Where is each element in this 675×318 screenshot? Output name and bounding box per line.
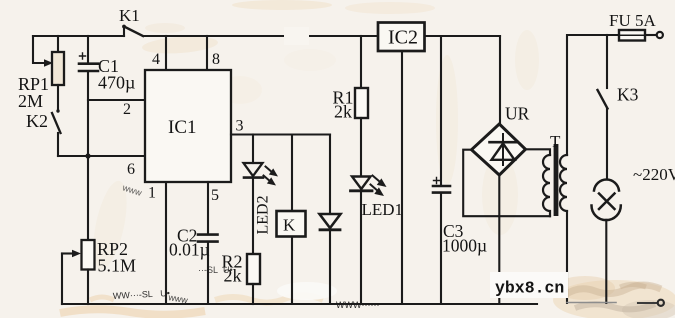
wire top rail segment to IC2: [309, 35, 378, 37]
wire pin1 drop: [165, 182, 167, 304]
wire top rail left segment: [33, 35, 124, 37]
switch K1: [122, 25, 143, 36]
svg-text:470µ: 470µ: [98, 73, 135, 93]
wire bridge AC left loop: [463, 150, 550, 217]
wire top rail segment IC2 to bridge: [425, 35, 500, 37]
potentiometer RP1: [52, 36, 64, 109]
svg-text:2M: 2M: [18, 91, 43, 111]
resistor R1: [355, 36, 368, 176]
svg-text:ybx8.cn: ybx8.cn: [495, 279, 564, 298]
svg-text:K2: K2: [26, 111, 48, 131]
svg-text:5.1M: 5.1M: [98, 256, 137, 276]
transformer T primary winding: [560, 155, 567, 211]
potentiometer RP2: [62, 240, 95, 304]
bridge rectifier UR diamond: [472, 124, 526, 175]
svg-text:1: 1: [148, 185, 156, 202]
wire bridge DC bottom drop: [498, 175, 500, 303]
wire pin3 horizontal: [231, 133, 330, 135]
svg-text:IC1: IC1: [168, 117, 197, 138]
svg-text:5: 5: [211, 187, 219, 204]
regulator IC2: [378, 23, 425, 52]
wire C1 bottom down through junction to RP2: [87, 71, 89, 240]
svg-text:2: 2: [123, 101, 131, 118]
capacitor C1: [79, 36, 98, 71]
wire pin5 drop: [207, 182, 209, 234]
svg-text:8: 8: [212, 51, 220, 68]
wire pin4 drop: [165, 36, 167, 70]
terminal circle bottom right: [658, 300, 664, 306]
wire pin6 horizontal: [58, 155, 145, 157]
svg-text:3: 3: [236, 118, 244, 135]
watermark box ybx8.cn: [490, 272, 568, 298]
transformer T secondary winding: [543, 155, 550, 216]
diode D1: [320, 135, 341, 305]
svg-text:0.01µ: 0.01µ: [169, 240, 210, 260]
svg-text:IC2: IC2: [388, 27, 418, 49]
svg-text:~220V: ~220V: [633, 165, 675, 184]
wire top rail middle segment: [143, 35, 284, 37]
svg-text:K1: K1: [119, 6, 140, 25]
svg-text:2k: 2k: [224, 266, 242, 286]
LED LED2: [244, 135, 279, 255]
svg-text:2k: 2k: [334, 102, 352, 122]
fuse FU 5A: [619, 30, 663, 41]
wire IC2 bottom drop: [401, 51, 403, 303]
wire lamp bottom drop: [605, 220, 607, 303]
svg-text:K3: K3: [617, 85, 639, 105]
svg-text:1000µ: 1000µ: [442, 236, 487, 256]
wire primary top riser: [567, 35, 619, 155]
op-amp IC1: [145, 70, 231, 182]
capacitor C3: [433, 36, 450, 303]
lamp EL: [592, 179, 621, 220]
resistor R2: [247, 254, 260, 284]
svg-text:T: T: [550, 132, 561, 151]
junction dot node pin6: [85, 153, 90, 158]
wire bottom rail: [62, 303, 537, 305]
transformer T core: [554, 144, 559, 216]
switch K2: [52, 109, 61, 156]
LED LED1: [351, 176, 387, 305]
svg-text:4: 4: [152, 51, 160, 68]
wire bridge AC right to transformer: [526, 149, 551, 155]
switch K3: [598, 35, 608, 179]
white patch over top rail (scan watermark): [284, 27, 309, 45]
svg-text:LED2: LED2: [255, 195, 272, 234]
svg-text:K: K: [283, 216, 296, 235]
svg-text:6: 6: [127, 161, 135, 178]
wire primary bottom drop: [566, 211, 568, 303]
capacitor C2: [198, 235, 218, 304]
wire pin2 horizontal: [88, 99, 145, 101]
relay K: [277, 135, 306, 305]
wire left drop to RP1 wiper: [33, 36, 46, 63]
wire bridge top drop: [499, 36, 501, 124]
svg-text:FU 5A: FU 5A: [609, 11, 656, 30]
wire bottom rail right faded: [567, 302, 616, 304]
bridge inner diode: [490, 134, 517, 165]
wire pin8 drop: [206, 36, 208, 70]
svg-text:LED1: LED1: [362, 200, 404, 219]
svg-text:UR: UR: [505, 104, 530, 124]
RP1 wiper arrowhead: [44, 59, 53, 67]
